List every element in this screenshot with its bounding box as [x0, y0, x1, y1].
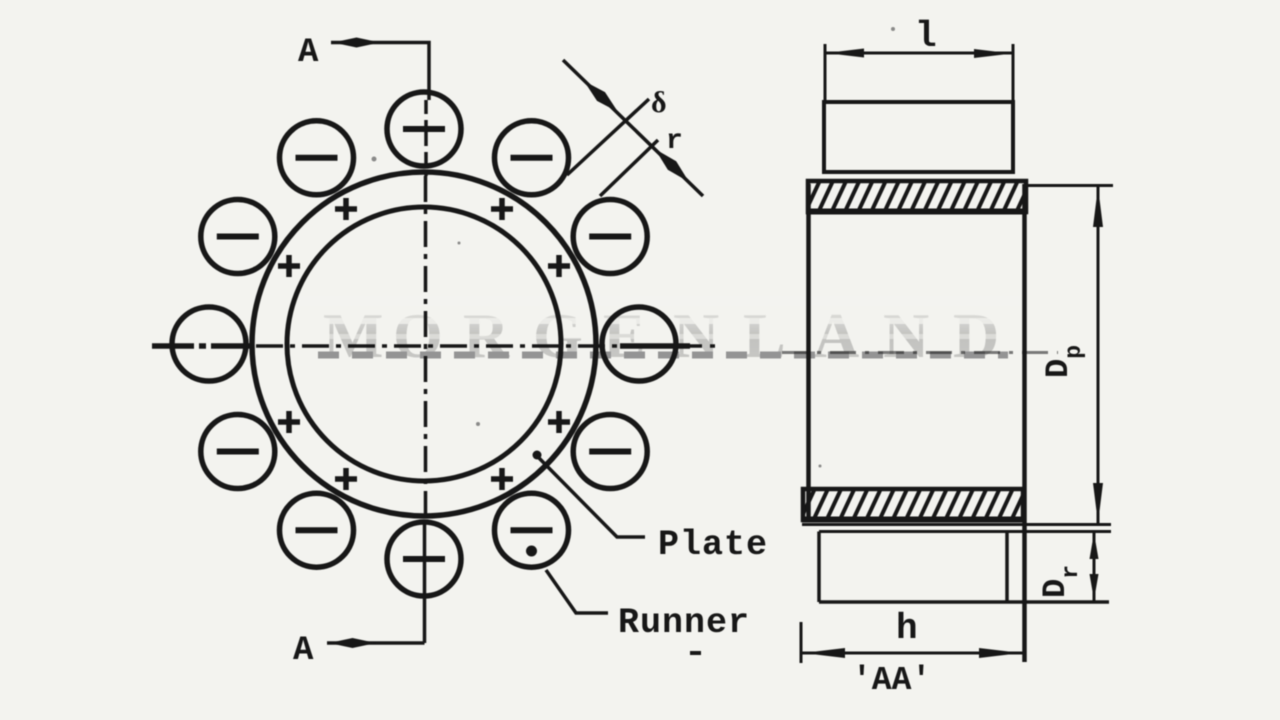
- svg-text:r: r: [666, 126, 683, 157]
- svg-text:l: l: [915, 16, 937, 57]
- svg-text:A: A: [293, 632, 314, 670]
- svg-text:A: A: [298, 34, 319, 72]
- svg-text:'AA': 'AA': [852, 662, 931, 699]
- svg-text:δ: δ: [651, 86, 667, 119]
- svg-text:h: h: [896, 608, 918, 649]
- svg-text:Runner: Runner: [618, 603, 750, 643]
- svg-text:Plate: Plate: [658, 525, 768, 565]
